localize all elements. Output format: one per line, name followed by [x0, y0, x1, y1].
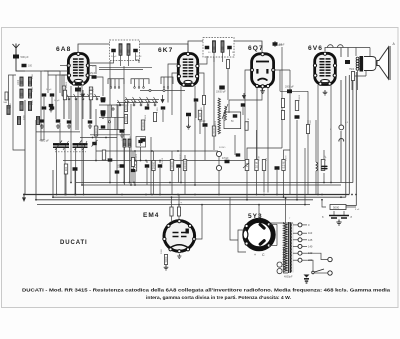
wire transformer frame [283, 222, 285, 224]
svg-text:2000 pF: 2000 pF [285, 86, 294, 89]
wire jacks [218, 157, 220, 166]
svg-text:7500: 7500 [349, 69, 355, 71]
IF T2 trimmer cap secondary [227, 46, 232, 50]
wire 6Q7 grid leak top [256, 130, 258, 160]
wire bus lower2 [36, 120, 313, 200]
wire bus upper1 [76, 182, 353, 184]
wire IF1 to 6K7 [135, 44, 188, 52]
wire transformer top [271, 222, 293, 224]
resistor 100pF stub [108, 158, 113, 161]
capacitor field [322, 166, 328, 168]
wire 6K7 cathode row [140, 90, 185, 92]
capacitor pair a [41, 120, 43, 122]
resistor 20000 avc [152, 161, 155, 171]
resistor diode load a [281, 99, 284, 108]
capacitor tone [233, 114, 238, 117]
capacitor coupling 2 [275, 166, 280, 170]
resistor 7500 [351, 72, 354, 81]
svg-text:FONO: FONO [219, 147, 226, 149]
wire ladder h1 [99, 104, 125, 106]
wire 6A8 left pins [60, 65, 68, 67]
wire IF T1 bottom stubs [120, 56, 122, 67]
resistor AVC 1 [133, 161, 136, 171]
coil L5 [20, 102, 23, 111]
arrow trimmer mid [82, 90, 85, 97]
wire 6Q7 to 6V6 top [274, 41, 276, 47]
speaker magnet pot [364, 57, 376, 71]
wire filter connections [322, 200, 326, 207]
coil trimmer zigzag short [225, 106, 227, 120]
resistor tone right [245, 122, 248, 131]
svg-text:6Q7: 6Q7 [248, 45, 264, 52]
wire IF1 can verticals below [109, 61, 111, 66]
svg-text:500 pF: 500 pF [21, 55, 29, 59]
wire 6K7 left pin [172, 73, 178, 115]
ground left bank b [56, 124, 60, 128]
IF T2 trimmer cap primary [205, 46, 210, 50]
svg-text:7500: 7500 [310, 119, 312, 125]
wire 6Q7 plate up [289, 70, 291, 148]
capacitor ladder c [101, 125, 106, 128]
ground left bank a [40, 124, 44, 128]
svg-text:10 M: 10 M [259, 156, 261, 161]
wire diode avc vertical [281, 47, 283, 148]
wire 6V6 grid down [284, 150, 291, 160]
wire 5Y3 plate feeds [269, 223, 277, 225]
wire bus left vertical [24, 100, 26, 195]
capacitor 6Q7 cathode [241, 103, 246, 106]
IF T1 primary winding [119, 44, 122, 56]
coil L2 [28, 77, 31, 86]
capacitor padder a [40, 94, 42, 96]
power transformer tap stubs [293, 224, 298, 226]
resistor det load [212, 126, 215, 136]
svg-text:20000: 20000 [151, 161, 155, 169]
resistor left edge tiny [5, 92, 8, 100]
resistor 1000 m2 [124, 115, 127, 124]
wire osc pad [124, 147, 126, 185]
svg-text:DUCATI - Mod. RR 3415 - Resist: DUCATI - Mod. RR 3415 - Resistenza catod… [22, 288, 391, 293]
wire osc coil to switch [68, 99, 70, 119]
svg-text:50000: 50000 [299, 94, 301, 101]
wire grid stub cap [88, 74, 91, 76]
phono jack J1 [216, 151, 221, 156]
capacitor plate bypass [295, 115, 300, 119]
resistor EM4 series b [177, 207, 180, 216]
resistor 50000 det [170, 160, 173, 171]
dial lamp circle [339, 125, 344, 130]
wire 6A8 grid cap to IF1 [78, 44, 113, 53]
ground 6Q7 [260, 89, 265, 94]
ground EM4 b [177, 254, 181, 258]
IF transformer T2 can [203, 38, 234, 58]
resistor 1000 m1 [124, 103, 127, 112]
wire switch3 bar [125, 99, 159, 101]
wire left area stubs [15, 60, 17, 71]
resistor mid h [153, 113, 156, 122]
capacitor mid c [101, 97, 106, 101]
wire IF2 to 6Q7 grid [230, 41, 262, 53]
svg-text:1 M: 1 M [93, 88, 95, 92]
ground 6K7 cathode [186, 124, 191, 129]
wire osc verticals [63, 96, 65, 119]
svg-text:50000: 50000 [141, 121, 145, 129]
wire h midleft a [36, 131, 80, 133]
wire 6K7 aux [195, 102, 197, 118]
svg-text:125: 125 [308, 238, 313, 242]
phono jack J2 [216, 165, 221, 170]
resistor 6K7 cathode [198, 110, 201, 120]
ground mid e [120, 133, 124, 137]
IF T2 primary winding [213, 41, 216, 53]
svg-text:MA: MA [4, 101, 8, 104]
resistor screen 6V6 [295, 101, 298, 111]
svg-text:0,5 M: 0,5 M [286, 155, 288, 161]
IF T1 secondary winding [127, 44, 130, 56]
junction dots [56, 194, 58, 196]
svg-text:1000: 1000 [130, 135, 132, 141]
capacitor ladder a [101, 99, 106, 102]
svg-text:300: 300 [64, 166, 68, 171]
svg-text:50 pF: 50 pF [136, 56, 142, 58]
resistor 100000 det [183, 160, 186, 171]
tone network box [224, 112, 241, 129]
svg-text:1000: 1000 [18, 79, 20, 85]
wire bus lower3 [37, 204, 310, 206]
svg-text:5000: 5000 [164, 256, 168, 262]
wire field box [307, 120, 309, 195]
svg-text:25pF: 25pF [90, 73, 96, 75]
capacitor mid f [145, 106, 150, 109]
wire right vertical3b [345, 76, 347, 197]
wire ground bus main [24, 194, 349, 196]
capacitor bank row3 a [67, 120, 72, 123]
coil field choke [316, 162, 318, 171]
wire h midleft b [90, 134, 130, 136]
capacitor 470pF radio-phono [225, 160, 230, 164]
switch bank B bracket [131, 79, 149, 84]
wire bus to transformer primary [285, 198, 287, 223]
svg-text:300: 300 [198, 112, 202, 117]
speaker voice coil [365, 58, 368, 68]
resistor EM4 cathode [164, 255, 167, 265]
tube 5Y3 [245, 220, 273, 248]
capacitor 500pF antenna [13, 55, 19, 59]
svg-text:intera, gamma corta divisa in: intera, gamma corta divisa in tre parti.… [146, 295, 291, 300]
capacitor cathode 6A8 [73, 167, 78, 171]
wire 6V6 grid line [280, 90, 308, 92]
wire left bank frame [9, 75, 17, 105]
switch bank C bracket [161, 77, 173, 84]
capacitor 6K7 cathode [186, 113, 191, 117]
coil detector zigzag tall [218, 98, 220, 134]
wire left verticals [43, 97, 45, 106]
wire IF2 return [227, 69, 229, 101]
coil L8 [17, 117, 20, 125]
power transformer T4 core [288, 222, 290, 273]
capacitor padder boxed [136, 137, 146, 148]
wire top left horizontals [44, 70, 68, 72]
junction ladder [108, 121, 110, 123]
svg-text:DUCATI: DUCATI [60, 240, 88, 246]
switch S1 wave band [67, 94, 70, 100]
svg-text:431,2 pF: 431,2 pF [39, 139, 49, 142]
wire long horizontals under IF1 [99, 67, 152, 69]
wire 6K7 down [180, 86, 182, 183]
wire 5000 box feed [346, 205, 356, 207]
svg-text:1 M: 1 M [248, 118, 250, 122]
wire mains to switch [307, 260, 313, 271]
wire pad row [80, 137, 117, 139]
capacitor under6A8 a [49, 104, 54, 107]
wire speaker drop [340, 48, 342, 58]
wire mid-l [132, 151, 134, 158]
wire 6A8 cathode down [70, 86, 72, 183]
variable capacitor tuning gang section2 [73, 143, 88, 145]
resistor screen 6K7 [141, 120, 144, 130]
resistor 6Q7 plate [262, 160, 265, 171]
capacitor 8000pF speaker [345, 60, 350, 64]
capacitor trimmer bank a [42, 93, 47, 96]
wire det mid [171, 171, 173, 195]
capacitor avc c1 [145, 164, 150, 167]
wire primary bottom loops [277, 262, 282, 267]
capacitor trimmer bank d [50, 106, 55, 109]
capacitor det mid [176, 164, 181, 167]
capacitor mid e [120, 129, 125, 133]
resistor 50000 osc [62, 86, 65, 96]
wire EM4 feeds [171, 197, 173, 207]
svg-text:20000: 20000 [215, 120, 217, 127]
svg-text:5 000: 5 000 [157, 107, 159, 113]
capacitor screen 6K7 [141, 138, 146, 142]
capacitor trimmer bank e [40, 119, 45, 122]
resistor EM4 series a [170, 207, 173, 216]
wire switch row line [66, 96, 100, 98]
wire gang coupling dashed [55, 151, 86, 153]
svg-text:1000: 1000 [124, 104, 128, 110]
wire screen 6A8 [95, 109, 97, 126]
capacitor 10000pF osc [219, 86, 225, 90]
IF T2 secondary winding [221, 41, 224, 53]
svg-text:30 pF: 30 pF [46, 89, 52, 91]
wire avc to pot [247, 148, 282, 160]
capacitor trimmer 94 [92, 142, 97, 145]
svg-text:5000: 5000 [107, 159, 113, 161]
capacitor trimmer bank b [50, 93, 55, 96]
svg-text:1000: 1000 [32, 86, 34, 92]
wire speaker bottoms [357, 71, 359, 90]
svg-text:10000: 10000 [80, 88, 82, 95]
svg-text:5000: 5000 [161, 248, 163, 254]
wire mid verticals to bus [246, 171, 248, 200]
svg-text:50000: 50000 [145, 114, 147, 121]
capacitor bank row3 b [88, 120, 93, 123]
capacitor mid g [161, 106, 166, 109]
resistor osc2 [89, 87, 92, 97]
capacitor 50pF 6Q7 grid [273, 42, 278, 46]
wire pair to bus [65, 174, 67, 195]
wire IF2 stub down [213, 57, 215, 126]
wire 6Q7 cathode cap [242, 107, 244, 115]
capacitor 100pF det [203, 123, 208, 127]
svg-text:1 M: 1 M [89, 93, 93, 97]
ground 6V6 [323, 90, 328, 95]
wire 6V6 top bumps [328, 45, 334, 48]
capacitor avc c2 [158, 164, 163, 167]
IF transformer T1 can [110, 40, 140, 61]
svg-text:25 pF: 25 pF [325, 155, 327, 161]
svg-text:50000: 50000 [66, 81, 68, 88]
output transformer T3 primary [356, 57, 359, 70]
IF T1 trimmer cap secondary [133, 49, 138, 53]
power transformer T4 body shade [283, 223, 289, 273]
capacitor 6K7 g2 [194, 98, 199, 101]
resistor 1M mid [89, 90, 92, 100]
wire 6Q7 down [256, 86, 258, 160]
svg-text:20000: 20000 [212, 127, 216, 135]
ground electrolytics [336, 220, 341, 226]
capacitor ladder b [101, 112, 106, 115]
wire right B+ vertical [355, 72, 357, 206]
wire 6Q7 left pins [245, 70, 252, 160]
coil osc pad b [128, 139, 131, 147]
svg-text:100000: 100000 [180, 153, 182, 161]
capacitor AVC 1 [120, 164, 125, 168]
svg-text:110: 110 [308, 231, 313, 235]
wire right mid area [315, 120, 317, 150]
wire IF T2 bottom stubs [213, 53, 215, 63]
coil osc pad a [123, 139, 126, 147]
ground osc arrow [243, 93, 246, 99]
ground bank row3 b [88, 124, 92, 128]
capacitor output tone [322, 166, 327, 168]
svg-text:50 pF: 50 pF [111, 56, 117, 58]
wire 6K7 plate to IF2 [198, 56, 207, 64]
wire right vertical3 [348, 75, 350, 195]
ground bank row3 a [67, 124, 71, 128]
wire bus upper2 [82, 184, 341, 186]
speaker cone [377, 47, 389, 79]
capacitor 6Q7 coupling [249, 167, 251, 169]
wire AVC line2 [96, 150, 218, 152]
svg-text:5000: 5000 [24, 114, 26, 120]
svg-text:+: + [254, 253, 256, 257]
wire ladder verticals [107, 105, 109, 130]
svg-text:100pF: 100pF [199, 121, 206, 123]
resistor mid2 [63, 90, 66, 100]
svg-text:1000: 1000 [32, 99, 34, 105]
wire bus lower1 [53, 170, 346, 197]
coil L7 [7, 106, 10, 115]
resistor cathode 6A8 [64, 164, 67, 174]
resistor 5000 filter [330, 205, 346, 210]
capacitor 6V6 tone [321, 160, 325, 171]
IF T1 trimmer cap primary [111, 49, 116, 53]
svg-text:μμF: μμF [278, 44, 283, 47]
capacitor electrolytic 8uF a [329, 216, 349, 219]
resistor b+ drop [306, 125, 309, 134]
wire ladder h2 [99, 116, 125, 118]
wire 6K7 cath [188, 117, 190, 125]
svg-text:10000 pF: 10000 pF [216, 92, 226, 94]
ground under6A8 a [49, 108, 53, 112]
svg-text:8 uF: 8 uF [355, 209, 360, 211]
wire tuning gang grounds [56, 148, 58, 195]
svg-text:50000: 50000 [162, 157, 164, 164]
wire 5Y3 plate rail [276, 224, 278, 245]
wire antenna down [16, 59, 25, 72]
capacitor mid-l [131, 169, 136, 172]
svg-text:1000: 1000 [124, 116, 128, 122]
svg-text:100: 100 [28, 65, 33, 68]
svg-text:1000: 1000 [122, 135, 124, 141]
wire AVC line [63, 160, 247, 162]
volume potentiometer [245, 160, 249, 171]
ground mains [304, 275, 310, 284]
capacitor osc black [75, 88, 81, 92]
svg-text:470pF: 470pF [222, 158, 229, 160]
dial lamp circle 2 [339, 138, 344, 141]
capacitor trimmer bank f [56, 119, 61, 122]
wire 5Y3 output [258, 205, 260, 220]
wire 6V6 down [317, 85, 319, 195]
tube EM4 [164, 221, 195, 252]
switch S2 wave band [118, 100, 121, 106]
ground main bus left end [23, 195, 26, 202]
tube 6K7 [178, 54, 197, 86]
resistor diode load b [281, 111, 284, 120]
svg-text:100000: 100000 [183, 160, 187, 169]
capacitor antenna 2 [22, 64, 27, 68]
capacitor trimmer bank c [42, 106, 47, 109]
wire AVC stubs [134, 151, 136, 161]
svg-text:20000: 20000 [136, 153, 138, 160]
antenna [13, 44, 20, 61]
svg-text:4000pF: 4000pF [284, 276, 293, 279]
wire 6V6 plate to output transformer [325, 48, 370, 52]
resistor IF2 return [227, 60, 230, 69]
wire IF1 right corner [136, 60, 140, 63]
svg-text:6A8: 6A8 [56, 46, 71, 53]
ground EM4 [164, 265, 169, 270]
wire mid g [162, 110, 164, 122]
wire 5Y3 filament left [238, 230, 246, 252]
svg-text:1000: 1000 [10, 102, 12, 108]
switch S3 contacts [126, 97, 129, 103]
coil L3 [20, 89, 23, 98]
wire speaker top [369, 48, 371, 57]
mains switch [313, 269, 324, 273]
svg-text:5000: 5000 [333, 205, 340, 209]
coil L1 antenna [20, 77, 23, 86]
arrow ground 162 [161, 95, 164, 103]
tube 6V6 [315, 53, 336, 84]
svg-text:1 M: 1 M [171, 201, 173, 205]
wire right vertical4 [340, 131, 342, 183]
capacitor 6Q7 input [236, 153, 241, 156]
svg-text:6V6: 6V6 [308, 45, 323, 52]
wire 6A8 plate to IF1 [88, 60, 113, 63]
capacitor 2000pF coupling [287, 89, 292, 93]
wire left long verticals [12, 75, 14, 130]
capacitor k [115, 170, 120, 173]
svg-text:6K7: 6K7 [158, 47, 173, 54]
output transformer T3 core [360, 56, 364, 72]
coil L6 [28, 102, 31, 111]
svg-text:EM4: EM4 [143, 212, 159, 219]
svg-text:50000: 50000 [170, 161, 174, 169]
